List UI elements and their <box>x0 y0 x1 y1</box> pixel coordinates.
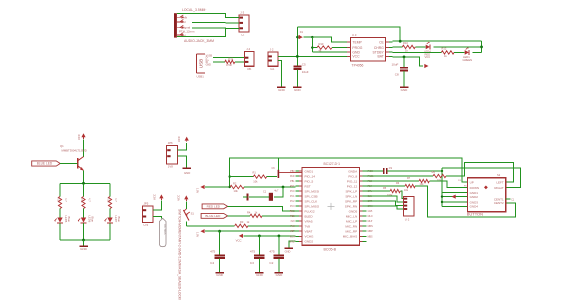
svg-text:SPK_LP: SPK_LP <box>345 189 357 193</box>
svg-text:VCHG: VCHG <box>305 235 315 239</box>
svg-text:2 blk: 2 blk <box>181 15 188 19</box>
svg-text:7V8: 7V8 <box>290 226 295 228</box>
svg-text:U·2: U·2 <box>405 218 410 222</box>
svg-text:TP4056: TP4056 <box>352 64 364 68</box>
svg-text:VCC: VCC <box>352 55 360 59</box>
svg-text:PAD: PAD <box>290 175 295 178</box>
svg-text:Blue: Blue <box>117 217 121 223</box>
svg-text:J·3: J·3 <box>240 10 244 14</box>
svg-text:GND: GND <box>285 250 291 254</box>
svg-text:GND: GND <box>278 88 286 92</box>
svg-text:PLUG2: PLUG2 <box>305 209 315 213</box>
svg-text:VCC: VCC <box>425 55 431 59</box>
svg-text:1.8V: 1.8V <box>195 188 198 193</box>
svg-text:475: 475 <box>250 250 255 254</box>
svg-text:BUTTON: BUTTON <box>467 212 483 217</box>
svg-text:CE: CE <box>379 40 384 44</box>
svg-text:VCC: VCC <box>177 136 181 142</box>
svg-text:GND4: GND4 <box>470 205 479 209</box>
svg-text:VCC: VCC <box>152 194 156 200</box>
svg-text:R11: R11 <box>229 56 234 60</box>
svg-text:VCC: VCC <box>177 195 181 201</box>
svg-text:S1: S1 <box>191 211 195 215</box>
svg-text:GND: GND <box>256 273 264 277</box>
svg-text:USB: USB <box>199 59 204 68</box>
svg-text:MIC_LN: MIC_LN <box>346 214 357 218</box>
svg-text:BC05-B: BC05-B <box>324 248 337 252</box>
svg-text:RIGHT: RIGHT <box>494 186 504 190</box>
svg-text:4.7: 4.7 <box>114 198 118 202</box>
svg-text:MRP: MRP <box>368 231 374 233</box>
svg-text:GND: GND <box>206 63 212 66</box>
svg-text:J·4: J·4 <box>246 47 250 51</box>
svg-text:GN5: GN5 <box>368 211 373 213</box>
svg-text:SPI_MISO: SPI_MISO <box>305 204 320 208</box>
svg-text:VBAT: VBAT <box>305 230 313 234</box>
svg-text:PIO_5: PIO_5 <box>305 179 314 183</box>
svg-text:MIC_LP: MIC_LP <box>346 220 357 224</box>
svg-text:PB1: PB1 <box>290 181 295 183</box>
svg-text:SPI_MOSI: SPI_MOSI <box>305 189 320 193</box>
svg-text:RED LED: RED LED <box>207 205 221 209</box>
svg-text:R4: R4 <box>247 210 251 214</box>
svg-text:C2: C2 <box>269 261 273 265</box>
svg-text:R15: R15 <box>80 198 84 203</box>
svg-text:GND1: GND1 <box>305 169 314 173</box>
svg-text:UA·: UA· <box>270 67 275 71</box>
svg-text:VCC: VCC <box>236 239 242 243</box>
svg-text:GREEN: GREEN <box>463 58 473 62</box>
svg-text:PROG: PROG <box>352 46 362 50</box>
svg-text:JP6: JP6 <box>168 141 173 145</box>
svg-text:CENT2: CENT2 <box>494 201 504 205</box>
svg-text:R13: R13 <box>319 42 324 46</box>
svg-text:TEMP: TEMP <box>352 40 362 44</box>
svg-text:VRA5: VRA5 <box>305 220 313 224</box>
svg-text:GND: GND <box>401 88 409 92</box>
svg-text:J·2: J·2 <box>270 48 274 52</box>
svg-text:PB2: PB2 <box>290 216 295 218</box>
svg-text:BLED: BLED <box>305 214 314 218</box>
svg-text:GND2: GND2 <box>470 195 479 199</box>
svg-text:JP5: JP5 <box>144 202 149 206</box>
svg-text:3 sl: 3 sl <box>181 20 186 24</box>
svg-text:USB1: USB1 <box>197 74 205 78</box>
svg-text:BAT: BAT <box>377 55 383 59</box>
svg-text:PIO_14: PIO_14 <box>305 174 316 178</box>
svg-text:C8: C8 <box>395 73 399 77</box>
svg-text:U·: U· <box>242 33 245 37</box>
svg-text:10uF: 10uF <box>302 70 309 74</box>
svg-text:BC127-D·1: BC127-D·1 <box>324 162 341 166</box>
svg-text:U·5: U·5 <box>144 223 149 227</box>
svg-text:MRN: MRN <box>368 226 374 228</box>
svg-text:PC0: PC0 <box>290 191 295 193</box>
svg-text:475: 475 <box>210 250 215 254</box>
svg-text:MIC_RN: MIC_RN <box>345 225 357 229</box>
svg-text:GND2: GND2 <box>305 240 314 244</box>
svg-text:Blue: Blue <box>67 217 71 223</box>
svg-text:C4: C4 <box>210 261 214 265</box>
svg-text:PC1: PC1 <box>290 196 295 198</box>
svg-text:S2: S2 <box>497 173 501 177</box>
svg-text:SPI_CLK: SPI_CLK <box>305 199 319 203</box>
svg-text:GND5: GND5 <box>349 209 358 213</box>
svg-text:R16: R16 <box>107 198 111 203</box>
svg-text:PB0: PB0 <box>290 171 295 173</box>
svg-text:GND: GND <box>184 171 190 175</box>
svg-text:VBT: VBT <box>290 231 295 233</box>
svg-text:PIO_12: PIO_12 <box>347 184 358 188</box>
svg-text:RST: RST <box>305 184 311 188</box>
svg-text:LEFT: LEFT <box>496 180 504 184</box>
svg-text:SPI_CSB: SPI_CSB <box>305 194 318 198</box>
svg-text:R14: R14 <box>57 198 61 203</box>
svg-text:UB·: UB· <box>247 67 252 71</box>
svg-text:C3: C3 <box>250 261 254 265</box>
svg-text:Blue: Blue <box>91 217 95 223</box>
svg-text:UP: UP <box>470 180 474 184</box>
svg-text:R3: R3 <box>240 220 244 224</box>
svg-text:R2: R2 <box>233 181 237 185</box>
svg-text:SPK_RP: SPK_RP <box>345 199 357 203</box>
svg-text:7V8: 7V8 <box>305 225 311 229</box>
svg-text:DOWN: DOWN <box>470 186 480 190</box>
svg-text:SPK_LN: SPK_LN <box>345 194 357 198</box>
svg-text:10k: 10k <box>234 189 239 193</box>
svg-text:PC3: PC3 <box>290 206 295 208</box>
svg-text:Q1: Q1 <box>60 144 64 148</box>
svg-text:R10: R10 <box>403 41 408 45</box>
svg-text:LOCAL_3.5MM·: LOCAL_3.5MM· <box>182 8 207 12</box>
svg-text:4.7: 4.7 <box>88 198 92 202</box>
svg-text:U·3: U·3 <box>352 33 357 37</box>
svg-text:MBS: MBS <box>368 236 373 238</box>
svg-text:MMBT3904LT1SMD: MMBT3904LT1SMD <box>62 148 87 152</box>
svg-text:GND: GND <box>289 241 294 243</box>
svg-text:475: 475 <box>269 250 274 254</box>
svg-text:PIO_11: PIO_11 <box>347 179 358 183</box>
svg-text:4.7: 4.7 <box>64 198 68 202</box>
svg-text:GND: GND <box>216 273 224 277</box>
svg-text:1.8V: 1.8V <box>195 232 198 237</box>
svg-text:BLUE LED: BLUE LED <box>37 162 53 166</box>
svg-text:1V8: 1V8 <box>290 221 295 223</box>
svg-text:GND: GND <box>276 273 284 277</box>
svg-text:PIO_8: PIO_8 <box>348 174 357 178</box>
svg-text:4u7: 4u7 <box>274 189 279 192</box>
svg-text:MLN: MLN <box>368 216 373 218</box>
svg-text:RST: RST <box>290 186 295 188</box>
svg-text:MIC BIAS: MIC BIAS <box>163 224 166 235</box>
svg-text:MIC_BIAS: MIC_BIAS <box>343 235 357 239</box>
svg-text:10uF: 10uF <box>392 63 399 67</box>
svg-text:C5: C5 <box>302 62 306 66</box>
svg-text:1V8: 1V8 <box>168 165 173 169</box>
svg-text:VCH: VCH <box>290 236 295 238</box>
svg-text:MIC_RP: MIC_RP <box>345 230 357 234</box>
svg-text:GNDA: GNDA <box>348 169 358 173</box>
svg-text:0.5R: 0.5R <box>226 63 232 67</box>
svg-text:GND: GND <box>80 247 88 251</box>
svg-text:GND: GND <box>294 88 302 92</box>
svg-text:10k: 10k <box>253 179 258 183</box>
svg-text:SWITCH-MOMENTARY-2-SMD-5.2MM-K: SWITCH-MOMENTARY-2-SMD-5.2MM-KSA_SEALED-… <box>178 209 182 300</box>
svg-text:GND3: GND3 <box>470 200 479 204</box>
svg-text:PEC: PEC <box>290 211 295 213</box>
svg-text:MLP: MLP <box>368 221 373 223</box>
svg-text:AUDIO-JACK_3MM: AUDIO-JACK_3MM <box>184 39 214 43</box>
svg-text:R12: R12 <box>442 46 447 50</box>
svg-text:PC2: PC2 <box>290 201 295 203</box>
svg-text:VCC: VCC <box>77 134 81 140</box>
svg-text:CHRG: CHRG <box>374 46 384 50</box>
svg-text:SPK_RN: SPK_RN <box>345 204 357 208</box>
svg-text:R1: R1 <box>253 170 257 174</box>
svg-text:BLUE LED: BLUE LED <box>205 214 221 218</box>
